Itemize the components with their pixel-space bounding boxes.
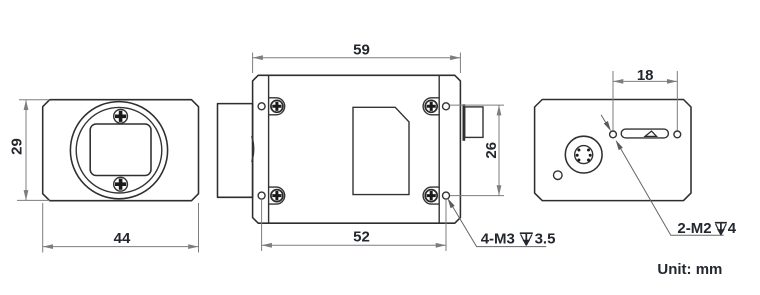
dimension 29 — [8, 100, 49, 201]
slot triangle mark — [645, 131, 657, 136]
back plate line — [438, 76, 440, 224]
screw bottom front — [114, 177, 128, 191]
dimension 26 — [450, 105, 504, 196]
svg-text:3.5: 3.5 — [535, 231, 556, 248]
dimension 18 — [613, 67, 677, 131]
label plate — [353, 107, 409, 194]
lens ring bulge arc — [252, 136, 254, 162]
power connector outer — [565, 136, 602, 173]
leader 2-M2 — [601, 115, 724, 235]
connector body side — [465, 107, 483, 137]
label 2-M2 depth 4 — [677, 220, 736, 237]
power connector inner — [575, 146, 593, 164]
M2 hole right — [674, 131, 681, 138]
svg-text:4-M3: 4-M3 — [481, 231, 515, 248]
screw top-left side — [269, 98, 285, 115]
dimension 44 — [43, 203, 199, 253]
LED indicator — [554, 171, 563, 180]
side view lens barrel — [218, 104, 253, 198]
sensor window — [90, 124, 151, 176]
svg-text:26: 26 — [483, 142, 500, 159]
svg-text:52: 52 — [353, 229, 370, 246]
slot — [621, 129, 668, 138]
leader 4-M3 — [448, 198, 547, 247]
screw top front — [114, 109, 128, 123]
svg-text:18: 18 — [637, 67, 654, 84]
connector pins — [576, 149, 592, 162]
label 4-M3 depth 3.5 — [481, 231, 556, 248]
hole bottom-left — [258, 192, 265, 199]
svg-text:2-M2: 2-M2 — [677, 220, 711, 237]
note unit mm — [657, 261, 722, 278]
svg-text:44: 44 — [114, 230, 131, 247]
hole top-left — [258, 103, 265, 110]
connector flange — [463, 104, 466, 141]
M2 hole left — [610, 131, 617, 138]
lens mount outer circle — [70, 102, 167, 199]
front plate line — [268, 76, 270, 224]
back view camera body — [535, 100, 691, 201]
screw bottom-right side — [423, 187, 439, 204]
hole bottom-right — [443, 192, 450, 199]
hole top-right — [443, 103, 450, 110]
svg-text:Unit: mm: Unit: mm — [657, 261, 722, 278]
front view camera body — [43, 100, 199, 201]
svg-text:4: 4 — [728, 220, 737, 237]
svg-text:29: 29 — [8, 138, 25, 155]
svg-text:59: 59 — [353, 42, 370, 59]
dimension 59 — [253, 42, 461, 74]
screw bottom-left side — [269, 187, 285, 204]
dimension 52 — [262, 200, 446, 251]
screw top-right side — [423, 98, 439, 115]
lens mount inner circle — [76, 107, 162, 193]
side view camera body — [253, 75, 461, 223]
